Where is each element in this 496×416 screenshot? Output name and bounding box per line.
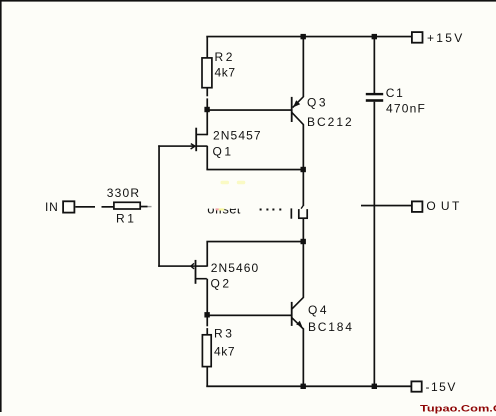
terminal OUT <box>412 201 423 212</box>
svg-text:R1: R1 <box>116 211 137 225</box>
svg-text:R3: R3 <box>214 326 235 340</box>
svg-text:UT: UT <box>441 199 462 213</box>
wire R2 bottom lead <box>206 88 208 97</box>
wire Q2 gate <box>158 265 194 267</box>
wire C1 top lead <box>374 37 376 94</box>
svg-text:Q2: Q2 <box>211 277 232 291</box>
node R2 / Q3 base / Q1 drain <box>204 107 209 112</box>
svg-text:Tupao.Com.Cr: Tupao.Com.Cr <box>420 404 496 414</box>
wire R1 right stub <box>141 206 148 208</box>
svg-text:330R: 330R <box>107 186 141 200</box>
svg-text:-15V: -15V <box>426 380 457 394</box>
node top rail to C1 <box>372 34 377 39</box>
node Q2 source / Q4 collector <box>301 239 306 244</box>
svg-text:Q4: Q4 <box>308 303 329 317</box>
node Q2 drain / R3 / Q4 base <box>204 312 209 317</box>
wire Q1 source to center node <box>206 169 303 171</box>
wire gate bus Q1 to Q2 <box>158 145 160 266</box>
wire OUT <box>361 205 411 207</box>
wire bottom rail -15V <box>206 385 410 387</box>
wire Q3 base <box>207 109 291 111</box>
wire Q3 emitter riser <box>303 37 305 98</box>
svg-text:4k7: 4k7 <box>215 65 236 79</box>
trimmer remnant left dash <box>291 208 293 218</box>
svg-text:2N5457: 2N5457 <box>213 129 262 143</box>
yellow smudge remnants <box>221 181 246 184</box>
svg-text:BC184: BC184 <box>308 320 354 334</box>
svg-text:+15V: +15V <box>427 31 465 45</box>
wire Q2 drain down <box>206 279 208 315</box>
frame left border <box>0 0 2 412</box>
dotted arrow remnant <box>260 209 282 211</box>
svg-text:IN: IN <box>45 200 59 214</box>
node Q1 source / Q3 collector <box>301 167 306 172</box>
wire Q3 collector down <box>303 124 305 169</box>
wire R3 top lead <box>206 315 208 326</box>
wire Q4 emitter down <box>303 328 305 387</box>
resistor R1 <box>114 202 140 209</box>
svg-text:C1: C1 <box>386 86 405 100</box>
trimmer remnant U shape <box>298 209 308 218</box>
transistor Q1 <box>191 128 208 152</box>
svg-text:R2: R2 <box>215 50 236 64</box>
terminal +15V <box>412 32 423 43</box>
watermark Tupao.Com.Cr <box>420 404 496 414</box>
svg-text:470nF: 470nF <box>386 101 426 115</box>
svg-text:2N5460: 2N5460 <box>211 261 260 275</box>
node bottom rail C1 <box>372 384 377 389</box>
wire Q1 gate <box>158 145 195 147</box>
transistor Q2 <box>191 260 207 284</box>
wire R3 bottom lead <box>206 367 208 387</box>
node top rail to Q3 emitter <box>301 34 306 39</box>
frame top border <box>0 0 496 2</box>
terminal IN <box>63 201 74 212</box>
terminal -15V <box>411 381 421 391</box>
wire Q4 collector up <box>303 242 305 298</box>
resistor R2 <box>202 58 212 88</box>
wire top rail +15V <box>206 36 411 38</box>
wire Q2 source to node <box>206 241 303 243</box>
transistor Q4 <box>291 297 304 329</box>
wire trimmer to lower node <box>303 218 305 241</box>
wire center node to trimmer <box>303 170 305 206</box>
wire C1 bottom lead <box>374 102 376 387</box>
node bottom rail Q4 emitter <box>301 384 306 389</box>
wire node to Q1 drain <box>206 110 208 135</box>
svg-text:4k7: 4k7 <box>214 345 235 359</box>
svg-text:Q1: Q1 <box>213 144 234 158</box>
transistor Q3 <box>291 97 304 125</box>
trimmer remnant diagonal <box>301 205 303 208</box>
svg-text:O: O <box>426 199 435 213</box>
wire Q4 base <box>207 315 291 317</box>
wire Q2 source up <box>206 242 208 267</box>
wire R2 top lead <box>206 37 208 59</box>
resistor R3 <box>202 335 211 367</box>
wire Q1 source down <box>206 146 208 170</box>
label offset (half erased) <box>207 202 240 217</box>
svg-text:BC212: BC212 <box>307 115 354 129</box>
capacitor C1 <box>366 93 383 102</box>
svg-text:Q3: Q3 <box>307 96 328 110</box>
wire IN to R1 <box>75 206 113 208</box>
